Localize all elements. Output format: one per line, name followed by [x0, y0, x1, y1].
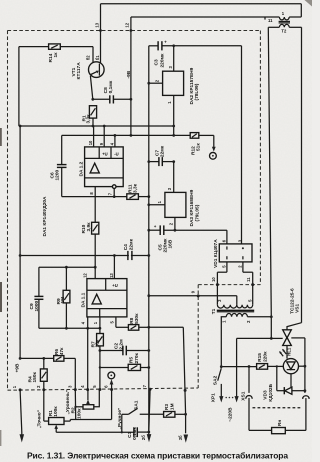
wire common pin1 to ground arrow: [20, 390, 22, 437]
wire DA2 pin3: [173, 46, 175, 71]
node border pin 4: [80, 385, 89, 391]
capacitor C7: [149, 145, 174, 166]
voltage regulator DA3: [157, 187, 201, 226]
node C8 junction on -9V line: [130, 98, 133, 101]
transformer T1 secondary: [217, 285, 253, 309]
node R9 top: [65, 266, 68, 269]
wire common rail: [148, 46, 150, 432]
wire pin3 down to R1 right riser: [74, 390, 76, 420]
wire C9 R9 top row: [39, 266, 95, 268]
node emitter junction: [91, 98, 94, 101]
node R3 junction: [184, 413, 187, 416]
wire DA1.2 pin9: [103, 126, 105, 147]
transformer T1 core: [211, 308, 254, 314]
node R9 bottom: [65, 327, 68, 330]
node pin1 to +9V wire: [172, 125, 175, 128]
wire DA1.2 pin10: [93, 126, 95, 147]
capacitor C2: [100, 339, 149, 355]
diode VD3: [263, 383, 305, 401]
node border pin 6: [104, 385, 113, 391]
potentiometer R2: [65, 389, 99, 419]
rectifier bridge VD1: [213, 239, 252, 268]
wire pin12 column (-9V line): [130, 17, 132, 135]
node C1 SA1 junction: [121, 431, 123, 433]
op-amp DA1.2: [78, 147, 123, 187]
node DA3 pin2 junction: [174, 229, 177, 232]
wire SA2 branch row: [221, 366, 256, 368]
node border pin 10: [211, 277, 219, 287]
node C4 rail: [147, 254, 150, 257]
node HL1 right: [304, 365, 307, 368]
node DA1.2 -U pin: [114, 134, 117, 137]
sensor terminal circle: [210, 152, 217, 159]
wire feedback row y328: [39, 327, 100, 329]
node R7 bottom C2 row: [99, 349, 102, 352]
node VD3 right: [304, 389, 307, 392]
load resistor Rn: [249, 420, 306, 434]
node pin7 junction: [113, 195, 116, 198]
wire XP1 right to triac row: [237, 337, 272, 339]
node T1 primary right: [270, 315, 273, 318]
wire pin13 column to VT1 b1: [100, 4, 102, 63]
node C7 DA3 column: [172, 160, 175, 163]
resistor R15: [257, 351, 284, 369]
voltage regulator DA2: [154, 66, 200, 105]
resistor R3: [164, 403, 186, 417]
resistor R8: [128, 313, 148, 330]
node VD3 branch tee: [276, 365, 278, 367]
wire DA1.2 output row: [62, 196, 149, 198]
wire mains rail A (pin 13 to top right): [101, 4, 302, 17]
scan noise overlay: [0, 0, 1, 1]
wire triac right drop: [304, 338, 306, 393]
wire +9V distribution (DA2 out): [20, 125, 174, 127]
wire C5 row to VD1: [149, 230, 227, 244]
node pin 12: [125, 22, 133, 32]
transformer T2 core: [279, 21, 290, 23]
transformer T2 upper winding: [279, 17, 289, 20]
node corner +9V column: [19, 125, 22, 128]
node R8 rail: [147, 326, 150, 329]
wire SA1 left riser: [121, 414, 123, 419]
switch SA2: [212, 368, 221, 398]
pin labels DA1.1 top: [83, 273, 114, 278]
node R5 rail: [147, 366, 150, 369]
ground arrow common rail: [147, 432, 152, 442]
node border pin 1: [12, 385, 22, 391]
wire DA1.1 pin13: [113, 256, 115, 279]
resistor R1: [81, 106, 96, 126]
wire DA1.2 pin8 to R10: [94, 187, 96, 223]
socket XS1 dashed link: [253, 407, 303, 409]
wire mains rail B (pin 12 line): [131, 16, 301, 18]
wire DA2 pin2 to rail: [149, 82, 163, 84]
node C7 rail: [147, 160, 150, 163]
node C3 DA2 junction: [172, 44, 175, 47]
wire manual row y419: [70, 419, 111, 421]
switch SA1: [122, 400, 164, 414]
wire VD1 pin5 to border pin 10: [217, 262, 227, 285]
resistor R6: [54, 347, 76, 390]
ground arrow output: [184, 435, 189, 443]
socket XS1 left contact: [246, 367, 252, 431]
transformer T2 lower winding: [279, 24, 289, 27]
node output column border crossing: [184, 389, 187, 392]
DA1.2 pin7 output circle: [108, 185, 116, 197]
node R2 left join: [74, 406, 76, 408]
arrow into manual terminal: [110, 379, 114, 389]
terminal circle manual pin6: [108, 372, 115, 379]
node border pin 7: [142, 384, 151, 390]
wire pin2 to R1 left: [43, 390, 45, 421]
wire DA1.1 pin12: [94, 267, 96, 278]
node DA2 pin2 rail: [147, 82, 150, 85]
node DA1.2 +U pin: [103, 125, 106, 128]
wire R2 left lead: [76, 406, 83, 408]
capacitor C5: [154, 224, 174, 253]
wire output column x184: [149, 327, 186, 433]
wire rail C to left AC column: [268, 26, 301, 28]
triac VS1: [271, 288, 305, 346]
wire R1 wiper row to C1: [56, 431, 134, 433]
node pin 13: [94, 22, 102, 32]
wire left AC column: [268, 27, 271, 338]
node border pin 9: [190, 290, 199, 297]
enclosure dashed border: [8, 31, 261, 391]
node DA2 pin1 lower junction: [172, 134, 175, 137]
label T2 pin ticks: [265, 11, 287, 33]
sensor terminal arrow: [212, 147, 216, 152]
wire SA1 bypass riser: [121, 419, 123, 432]
wire +9V row to DA1.1 pin13: [20, 255, 149, 257]
wire right AC column: [301, 27, 303, 322]
wire pin6 down to manual row: [111, 390, 113, 420]
wire R12 / -9V horizontal: [62, 134, 191, 136]
resistor R7: [90, 328, 103, 390]
node DA1.1 left pin at feedback row: [86, 327, 89, 330]
node DA3 pin1 rail: [147, 203, 150, 206]
capacitor C8: [93, 80, 131, 103]
op-amp DA1.1: [81, 279, 127, 317]
node +9V column row: [19, 254, 22, 257]
wire VD1 pin2 to border pin 11: [243, 262, 253, 285]
wire DA2 pin1 drop: [173, 95, 175, 135]
wire center tap row: [149, 295, 237, 297]
resistor R14: [48, 44, 61, 63]
wire DA1.1 left pin to R2 wiper pin4: [87, 317, 89, 390]
transformer T1 primary: [221, 314, 271, 367]
resistor R5: [128, 352, 149, 370]
socket XS1 right contact: [303, 396, 309, 431]
capacitor C6 branch: [50, 135, 67, 196]
node R4 top: [42, 357, 45, 360]
plug XP1 link dots: [225, 397, 233, 399]
resistor R11: [127, 183, 139, 199]
wire +9V left column: [19, 126, 21, 358]
potentiometer R1: [37, 406, 71, 433]
wire DA3 pin3: [173, 162, 175, 193]
wire R12 to sensor terminal: [199, 135, 214, 147]
node border pin 2: [36, 385, 45, 391]
node border pin 5: [92, 385, 101, 391]
plug XP1 right pin: [235, 338, 239, 402]
wire pin7 down: [149, 389, 150, 432]
node R5 tee: [99, 366, 101, 368]
node SA2 tee: [220, 365, 223, 368]
node R7 top junction: [99, 327, 102, 330]
node border pin 11: [246, 277, 254, 286]
resistor R10: [81, 222, 99, 268]
node center tap rail: [147, 294, 150, 297]
node C2 rail: [147, 349, 150, 352]
wire DA1.2 pin4: [114, 135, 116, 147]
node DA1.1 pin13 top: [113, 254, 116, 257]
wire +9V row R4 R6: [20, 357, 54, 359]
wire DA3 pin1 to rail: [149, 204, 165, 206]
wire DA1.1 pin5 to R8: [116, 317, 128, 327]
capacitor C1: [127, 427, 149, 440]
node triac left junction: [270, 337, 273, 340]
node border pin 3: [67, 385, 76, 391]
node lamp branch tee: [248, 365, 251, 368]
wire R14 branch top left: [19, 47, 93, 126]
capacitor C4: [123, 238, 134, 260]
node R11 to common rail: [147, 195, 150, 198]
LED lamp HL1: [279, 346, 305, 374]
node R1 bottom: [92, 125, 95, 128]
wire DA3 pin2 drop: [174, 217, 176, 230]
wire C3 filter row: [149, 46, 242, 244]
node DA1.2 pin8 / DA1.1 pin12 junction: [94, 266, 97, 269]
node C1 right rail: [147, 431, 150, 434]
wire DA1.1 pin1: [99, 317, 101, 328]
node +9V R4 row: [19, 357, 22, 360]
pin labels DA1.1 bottom: [80, 321, 114, 325]
plug XP1 left pin: [219, 396, 223, 402]
resistor R9: [56, 267, 70, 328]
capacitor C3: [154, 40, 168, 68]
wire HL1 VD3 branch: [277, 366, 291, 390]
node -9V line to R12 wire: [130, 134, 133, 137]
capacitor C9 branch: [29, 267, 44, 328]
wire R5 row: [100, 367, 128, 369]
transistor VT1 KT117A: [71, 47, 104, 100]
resistor R4: [27, 358, 47, 389]
ground arrow left: [20, 434, 25, 442]
pin labels DA1.2 top: [88, 140, 114, 145]
node C5 rail: [147, 229, 150, 232]
resistor R12: [190, 133, 201, 155]
